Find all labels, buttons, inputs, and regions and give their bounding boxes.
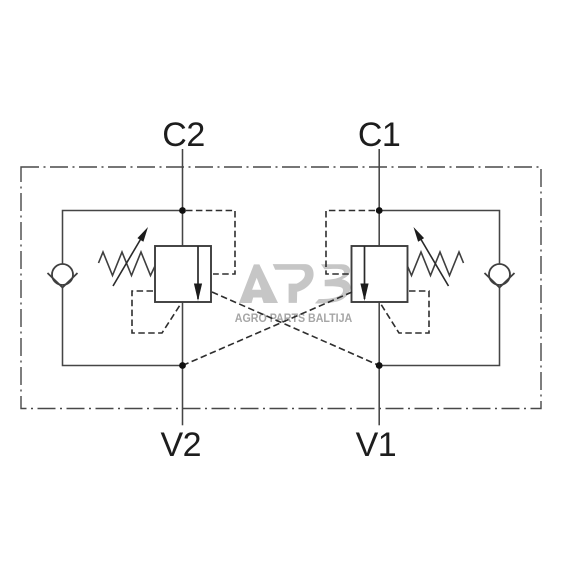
wire left bypass bottom bbox=[63, 288, 183, 366]
relief valve CB1 flow path arrow bbox=[364, 246, 366, 299]
svg-text:C2: C2 bbox=[162, 116, 204, 154]
pilot line CB2 (dashed from C2) bbox=[186, 211, 235, 275]
svg-text:C1: C1 bbox=[358, 116, 400, 154]
pilot line CB1 (dashed from C1) bbox=[326, 211, 375, 275]
relief valve CB2 body bbox=[155, 246, 211, 302]
svg-text:V1: V1 bbox=[356, 426, 397, 464]
drain line CB1 (dashed) bbox=[381, 291, 430, 333]
wire C2 to valve CB2 top bbox=[182, 149, 184, 246]
node C2 junction bbox=[179, 207, 186, 214]
svg-text:V2: V2 bbox=[161, 426, 202, 464]
relief valve CB1 body bbox=[352, 246, 408, 302]
wire right bypass top bbox=[379, 211, 499, 265]
relief valve CB2 flow path arrow bbox=[197, 246, 199, 299]
watermark logo APB bbox=[239, 264, 351, 303]
wire valve CB2 bottom to V2 bbox=[182, 302, 184, 425]
node V2 junction bbox=[179, 362, 186, 369]
wire left bypass top bbox=[63, 211, 183, 265]
check valve CV2 bbox=[48, 264, 78, 288]
drain line CB2 (dashed) bbox=[132, 291, 181, 333]
node V1 junction bbox=[376, 362, 383, 369]
wire valve CB1 bottom to V1 bbox=[378, 302, 380, 425]
svg-text:AGRO PARTS BALTIJA: AGRO PARTS BALTIJA bbox=[235, 313, 352, 325]
cross pilot line CB2 to V1 node (dashed) bbox=[212, 292, 379, 366]
spring CB1 bbox=[408, 252, 464, 276]
spring CB2 adjustment arrow bbox=[113, 234, 144, 287]
spring CB1 adjustment arrow bbox=[418, 234, 449, 287]
check valve CV1 bbox=[485, 264, 515, 288]
spring CB2 bbox=[99, 252, 156, 276]
wire right bypass bottom bbox=[379, 288, 499, 366]
node C1 junction bbox=[376, 207, 383, 214]
enclosure boundary (dash-dot) bbox=[21, 167, 541, 409]
wire C1 to valve CB1 top bbox=[378, 149, 380, 246]
cross pilot line CB1 to V2 node (dashed) bbox=[183, 292, 353, 366]
